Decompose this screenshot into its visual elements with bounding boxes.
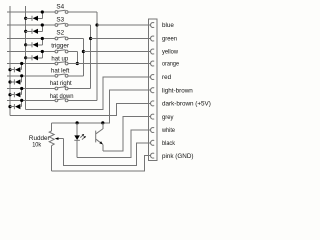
connector housing [148, 19, 157, 161]
wire hat up to orange pin [68, 63, 151, 65]
junction trigger/hat-up on orange net [76, 62, 79, 65]
pin red [151, 75, 155, 80]
diode D1 (S4) row [24, 10, 44, 21]
wire S4 to bend [68, 11, 97, 13]
switch S3 [55, 23, 68, 26]
pin white [151, 128, 155, 133]
switch trigger [55, 50, 68, 53]
wire emitter to grey pin [103, 117, 151, 151]
phototransistor Q1 [96, 123, 103, 151]
switch hat up [55, 62, 68, 65]
svg-text:S3: S3 [56, 16, 64, 23]
wire row trigger left [7, 51, 55, 53]
switch hat left [55, 74, 68, 77]
wire blue net to pin [97, 24, 151, 26]
wire trigger to ladder bend [68, 51, 78, 53]
pin blue [151, 23, 155, 28]
wire bus B1 bottom to dark-brown +5V pin [10, 103, 151, 115]
svg-text:hat left: hat left [51, 67, 70, 74]
wire S4 bend down to blue net [96, 12, 98, 100]
LED D9 (IR emitter) [74, 123, 80, 157]
switch hat down [55, 99, 68, 102]
junction S4/hat-down on blue net [95, 23, 98, 26]
pin green [151, 36, 155, 41]
wire wiper to black pin [63, 139, 150, 166]
svg-text:orange: orange [162, 61, 179, 68]
wire green net to pin [91, 38, 151, 40]
wire row S4 left [7, 11, 55, 13]
pin light-brown [151, 88, 155, 93]
pin orange [151, 61, 155, 66]
svg-text:yellow: yellow [162, 49, 178, 56]
switch S2 [55, 37, 68, 40]
svg-text:white: white [161, 127, 175, 134]
pin pink [151, 153, 155, 158]
wire S2 bend down to yellow net [82, 39, 84, 76]
svg-text:red: red [162, 74, 172, 81]
wire S2 to ladder bend [68, 38, 84, 40]
wire hat left to ladder [68, 75, 84, 77]
diode D2 (S3) row [24, 23, 44, 34]
switch hat right [55, 87, 68, 90]
LED arrows [80, 134, 86, 140]
svg-text:S2: S2 [56, 30, 64, 37]
svg-text:black: black [162, 140, 176, 147]
svg-text:dark-brown (+5V): dark-brown (+5V) [162, 101, 211, 108]
wire bus B2 bottom to red pin [26, 77, 151, 109]
pin dark-brown [151, 101, 155, 106]
wire row S3 left [7, 24, 55, 26]
svg-text:green: green [162, 36, 177, 43]
wire hat right to ladder [68, 88, 91, 90]
svg-text:light-brown: light-brown [162, 87, 193, 94]
svg-text:trigger: trigger [51, 43, 69, 50]
diode D7 (hat right) row [8, 87, 23, 97]
svg-text:S4: S4 [56, 3, 64, 10]
svg-text:10k: 10k [32, 141, 42, 148]
pin yellow [151, 49, 155, 54]
wire pot bottom to pink GND pin [52, 156, 151, 172]
wire LED cathode to white pin [77, 130, 151, 157]
pin grey [151, 114, 155, 119]
diode D4 (trigger) row [24, 50, 44, 61]
wire row hat right left [7, 88, 55, 90]
svg-text:blue: blue [162, 22, 174, 29]
svg-text:hat right: hat right [50, 80, 72, 87]
svg-text:pink (GND): pink (GND) [162, 153, 194, 160]
svg-text:hat up: hat up [51, 56, 68, 63]
node LED tap [76, 121, 79, 124]
node collector tap [101, 121, 104, 124]
wire row hat left left [7, 75, 55, 77]
diode D6 (hat left) row [8, 74, 23, 84]
junction S2/hat-left on yellow net [82, 50, 85, 53]
wire yellow net to pin [83, 51, 150, 53]
bus B2 (button common vertical bus) [25, 6, 27, 109]
bus B1 (hat common, left vertical bus) [9, 6, 11, 116]
wiper arrow of R1 [55, 137, 64, 140]
potentiometer R1 Rudder 10k [49, 123, 54, 171]
wire S3 bend down to green net [90, 25, 92, 89]
wire hat down to ladder [68, 99, 97, 101]
svg-text:grey: grey [162, 114, 174, 121]
diode D3 (S2) row [24, 37, 44, 48]
svg-text:hat down: hat down [50, 93, 74, 100]
pin black [151, 140, 155, 145]
wire row S2 left [7, 38, 55, 40]
wire row hat down left [7, 99, 55, 101]
wire row hat up left [7, 63, 55, 65]
diode D8 (hat down) row [8, 99, 23, 109]
diode D5 (hat up) row [8, 62, 23, 72]
wire trigger bend down to orange net [76, 52, 78, 64]
junction S3/hat-right on green net [89, 37, 92, 40]
wire pot top / collector net to light-brown pin [52, 90, 151, 123]
switch S4 [55, 10, 68, 13]
wire S3 to ladder bend [68, 24, 91, 26]
